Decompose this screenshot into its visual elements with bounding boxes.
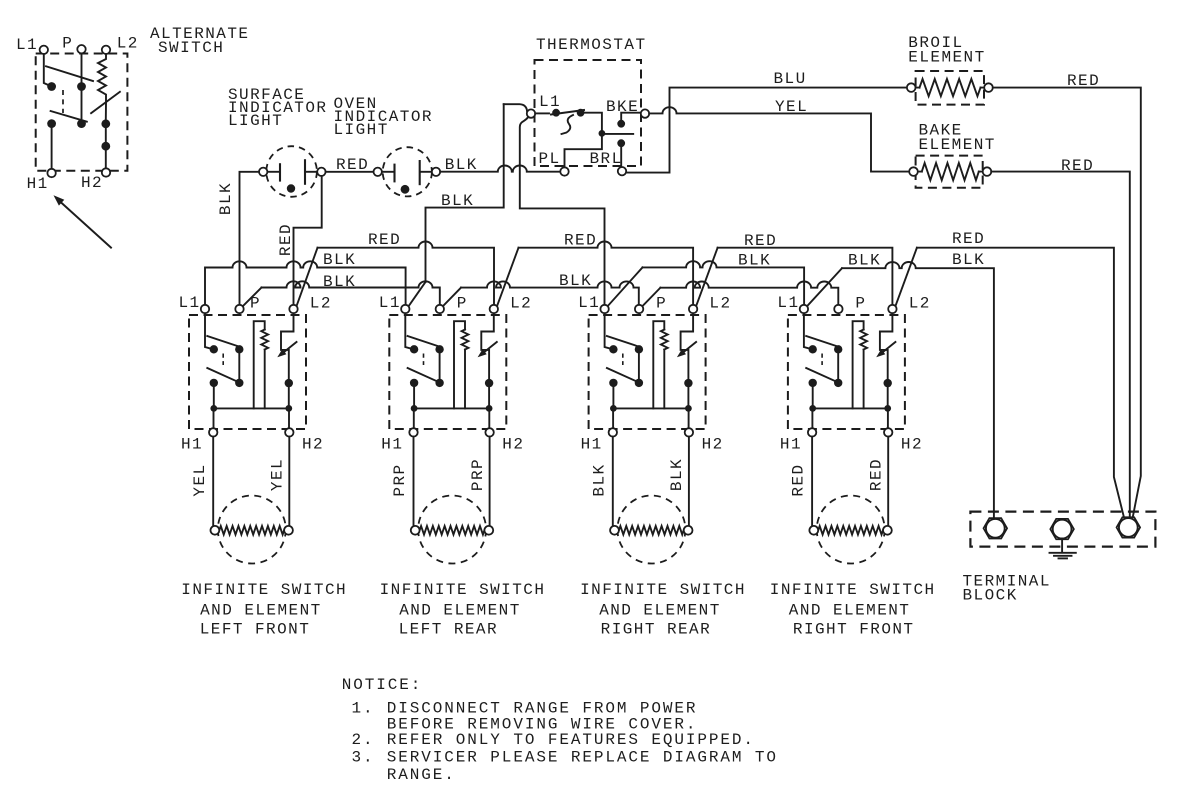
- svg-text:RED: RED: [1067, 72, 1100, 90]
- infinite switch 3 terminal L2: [689, 305, 697, 313]
- svg-text:INFINITE SWITCH: INFINITE SWITCH: [770, 581, 936, 599]
- infinite switch 3 terminal H1: [612, 408, 614, 428]
- infinite switch 4 lower contact: [806, 368, 836, 381]
- infinite switch 2 terminal P: [436, 305, 444, 313]
- svg-text:H2: H2: [81, 174, 103, 192]
- svg-text:RED: RED: [1061, 157, 1094, 175]
- svg-text:RED: RED: [744, 232, 777, 250]
- element 2 circle: [418, 496, 486, 564]
- broil element box: [916, 71, 984, 105]
- alt switch terminal H1: [47, 169, 55, 177]
- infinite switch 2 L1 contact feed: [405, 313, 414, 349]
- infinite switch 4 box: [788, 315, 905, 429]
- wire BLU thermostat BRL to broil element: [626, 88, 907, 173]
- infinite switch 4 output bar: [813, 383, 888, 409]
- svg-text:BLK: BLK: [445, 156, 478, 174]
- svg-text:RED: RED: [952, 230, 985, 248]
- svg-text:SERVICER PLEASE REPLACE DIAGRA: SERVICER PLEASE REPLACE DIAGRAM TO: [387, 749, 778, 767]
- thermostat box: [535, 60, 642, 166]
- svg-text:BLK: BLK: [323, 251, 356, 269]
- alt switch terminal P: [77, 45, 85, 53]
- element 2 terminals: [411, 526, 420, 535]
- infinite switch 4 upper contact: [809, 345, 817, 353]
- svg-text:INFINITE SWITCH: INFINITE SWITCH: [380, 581, 546, 599]
- thermostat terminal BKE: [641, 109, 649, 117]
- alt switch terminal L1: [40, 46, 48, 54]
- bake element terminals: [909, 167, 918, 176]
- infinite switch 4 terminal L1: [800, 305, 808, 313]
- infinite switch 1 terminal P: [235, 305, 243, 313]
- svg-text:THERMOSTAT: THERMOSTAT: [536, 36, 647, 54]
- infinite switch 1 internal heater: [254, 321, 265, 408]
- alt switch contact dots lower: [47, 119, 56, 128]
- svg-text:P: P: [855, 295, 866, 313]
- svg-text:RIGHT REAR: RIGHT REAR: [601, 620, 712, 638]
- alt switch contact arm lower: [51, 111, 87, 122]
- svg-text:P: P: [250, 295, 261, 313]
- svg-text:ELEMENT: ELEMENT: [919, 136, 996, 154]
- thermostat contact arm: [535, 112, 549, 114]
- element 3 circle: [617, 496, 685, 564]
- wire BLK pilot bus sw2 P to sw3 P: [443, 288, 461, 307]
- infinite switch 4 H1 wire RED: [811, 437, 813, 527]
- infinite switch 3 L2 contact: [681, 313, 694, 383]
- wire BLK oven light to thermostat PL: [440, 166, 560, 172]
- svg-text:P: P: [62, 35, 73, 53]
- alt switch L2 column dots: [101, 119, 110, 128]
- svg-text:H2: H2: [702, 436, 724, 454]
- svg-text:RED: RED: [336, 156, 369, 174]
- infinite switch 2 L2 contact: [481, 313, 494, 383]
- svg-text:BLK: BLK: [559, 272, 592, 290]
- svg-text:BLK: BLK: [441, 192, 474, 210]
- thermostat spring hook: [562, 115, 574, 134]
- svg-text:L1: L1: [179, 294, 201, 312]
- infinite switch 3 terminal L1: [600, 305, 608, 313]
- svg-text:H2: H2: [502, 436, 524, 454]
- alt switch terminal L2: [102, 46, 110, 54]
- svg-text:AND ELEMENT: AND ELEMENT: [599, 602, 721, 620]
- element 1 terminals: [211, 526, 220, 535]
- svg-text:RED: RED: [277, 223, 295, 256]
- svg-text:H1: H1: [581, 436, 603, 454]
- svg-text:H1: H1: [27, 175, 49, 193]
- svg-text:LIGHT: LIGHT: [228, 112, 283, 130]
- thermostat terminal BRL: [618, 167, 626, 175]
- svg-text:YEL: YEL: [775, 98, 808, 116]
- svg-text:L2: L2: [709, 295, 731, 313]
- oven light terminal left: [374, 168, 382, 176]
- infinite switch 1 contact link: [222, 354, 224, 366]
- svg-text:BLK: BLK: [217, 182, 235, 215]
- infinite switch 1 H2 wire YEL: [288, 437, 290, 527]
- infinite switch 1 H1 wire YEL: [212, 437, 214, 527]
- wire RED broil element to terminal block: [993, 88, 1141, 520]
- svg-text:AND ELEMENT: AND ELEMENT: [399, 602, 521, 620]
- element 4 circle: [817, 496, 885, 564]
- infinite switch 3 contact link: [622, 354, 624, 366]
- svg-text:INFINITE SWITCH: INFINITE SWITCH: [580, 581, 746, 599]
- infinite switch 3 box: [589, 315, 706, 429]
- infinite switch 3 L1 contact feed: [605, 313, 614, 349]
- infinite switch 3 lower contact: [607, 368, 637, 381]
- svg-text:RED: RED: [790, 463, 808, 496]
- svg-text:AND ELEMENT: AND ELEMENT: [789, 602, 911, 620]
- element 4 terminals: [809, 526, 818, 535]
- svg-text:SWITCH: SWITCH: [158, 39, 224, 57]
- alt switch contact arm upper: [46, 66, 93, 81]
- wire BLK bus sw3 L1 to sw4 L1: [608, 267, 643, 306]
- surface light dot: [287, 184, 295, 192]
- infinite switch 3 H2 wire BLK: [688, 437, 690, 527]
- bake element resistor: [922, 163, 979, 180]
- infinite switch 4 terminal L2: [888, 305, 896, 313]
- svg-text:BKE: BKE: [606, 98, 639, 116]
- infinite switch 2 terminal H1: [413, 408, 415, 428]
- surface light electrodes: [279, 163, 281, 181]
- wire RED bus sw2 to sw3: [497, 248, 519, 307]
- alt switch contact dots upper: [47, 82, 56, 91]
- surface indicator light bulb: [266, 146, 317, 197]
- broil element resistor: [920, 79, 981, 96]
- svg-text:H1: H1: [381, 436, 403, 454]
- infinite switch 1 upper contact: [210, 345, 218, 353]
- svg-text:YEL: YEL: [191, 463, 209, 496]
- infinite switch 3 output bar: [613, 383, 688, 409]
- svg-text:L1: L1: [539, 93, 561, 111]
- svg-text:P: P: [656, 295, 667, 313]
- infinite switch 3 internal heater: [653, 321, 664, 408]
- svg-text:NOTICE:: NOTICE:: [342, 676, 423, 694]
- svg-text:BRL: BRL: [590, 150, 623, 168]
- element 3 terminals: [610, 526, 619, 535]
- infinite switch 4 H2 wire RED: [887, 437, 889, 527]
- terminal block lug 1 (BLK): [984, 518, 1008, 538]
- svg-text:1.: 1.: [352, 700, 375, 718]
- wire BLK sw2 L1 arm to oven light feed: [409, 282, 426, 306]
- thermostat L1 feed wires: [504, 104, 527, 111]
- ground symbol: [1061, 539, 1063, 553]
- svg-text:3.: 3.: [352, 749, 375, 767]
- wire RED surface light to oven light: [326, 171, 374, 173]
- svg-text:BLK: BLK: [738, 252, 771, 270]
- svg-text:RED: RED: [368, 231, 401, 249]
- oven light dot: [401, 185, 410, 194]
- infinite switch 2 terminal L2: [490, 305, 498, 313]
- infinite switch 1 terminal L2: [289, 305, 297, 313]
- svg-text:L1: L1: [379, 294, 401, 312]
- infinite switch 4 terminal H1: [811, 408, 813, 428]
- svg-text:BLK: BLK: [668, 458, 686, 491]
- infinite switch 1 box: [189, 315, 306, 429]
- svg-text:2.: 2.: [352, 731, 375, 749]
- svg-text:INFINITE SWITCH: INFINITE SWITCH: [181, 581, 347, 599]
- thermostat BKE contact: [617, 120, 625, 128]
- infinite switch 3 upper contact: [609, 345, 617, 353]
- infinite switch 1 terminal H1: [213, 408, 215, 428]
- svg-text:H2: H2: [302, 436, 324, 454]
- alt switch L2 coil: [98, 54, 106, 119]
- svg-text:LIGHT: LIGHT: [334, 121, 389, 139]
- svg-text:PL: PL: [539, 150, 561, 168]
- infinite switch 2 contact link: [423, 354, 425, 366]
- svg-text:L2: L2: [117, 35, 139, 53]
- wire BLK sw4 L1 to terminal block: [807, 268, 842, 306]
- element 4 resistor: [818, 526, 883, 535]
- broil element terminals: [907, 83, 916, 92]
- wire YEL thermostat BKE to bake element: [649, 107, 909, 171]
- surface light terminal right: [317, 168, 325, 176]
- svg-text:BLK: BLK: [323, 273, 356, 291]
- svg-text:RED: RED: [564, 232, 597, 250]
- wire BLK pilot bus sw1 P to sw2 P: [243, 288, 262, 307]
- infinite switch 2 internal heater: [454, 321, 465, 408]
- wire RED bus L2 supply: [297, 248, 318, 307]
- svg-text:H1: H1: [181, 436, 203, 454]
- element 1 resistor: [219, 526, 284, 535]
- svg-text:L2: L2: [909, 295, 931, 313]
- svg-text:L2: L2: [510, 295, 532, 313]
- infinite switch 2 terminal L1: [401, 305, 409, 313]
- svg-text:REFER ONLY TO FEATURES EQUIPPE: REFER ONLY TO FEATURES EQUIPPED.: [387, 731, 755, 749]
- infinite switch 2 terminal H2: [488, 408, 490, 428]
- wire BLK bus sw1 L1 to sw2 L1: [205, 261, 406, 304]
- surface light terminal left: [259, 168, 267, 176]
- wire RED indicator lights to sw1 L2: [294, 176, 322, 305]
- terminal block lug 3 (RED): [1117, 517, 1141, 537]
- thermostat terminal PL: [560, 167, 568, 175]
- infinite switch 3 terminal P: [635, 305, 643, 313]
- infinite switch 1 L2 contact: [281, 313, 294, 383]
- terminal block lug 2 (neutral): [1050, 519, 1074, 539]
- infinite switch 2 H1 wire PRP: [413, 437, 415, 527]
- svg-text:LEFT FRONT: LEFT FRONT: [200, 620, 311, 638]
- infinite switch 4 contact link: [821, 354, 823, 366]
- infinite switch 3 terminal H2: [688, 408, 690, 428]
- svg-text:ELEMENT: ELEMENT: [908, 49, 985, 67]
- element 3 resistor: [619, 526, 684, 535]
- alt switch P wire: [81, 54, 83, 120]
- svg-text:BLU: BLU: [774, 70, 807, 88]
- infinite switch 2 H2 wire PRP: [489, 437, 491, 527]
- svg-text:BLK: BLK: [590, 463, 608, 496]
- svg-text:L2: L2: [310, 295, 332, 313]
- infinite switch 1 output bar: [214, 383, 289, 409]
- infinite switch 1 lower contact: [207, 368, 237, 381]
- svg-text:H2: H2: [901, 436, 923, 454]
- terminal block box: [970, 512, 1155, 547]
- oven indicator light bulb: [383, 147, 432, 196]
- svg-text:L1: L1: [16, 36, 38, 54]
- infinite switch 4 terminal P: [834, 305, 842, 313]
- thermostat internal node: [565, 113, 602, 168]
- infinite switch 1 terminal H2: [288, 408, 290, 428]
- bake element box: [916, 156, 983, 188]
- svg-text:YEL: YEL: [269, 458, 287, 491]
- svg-text:RANGE.: RANGE.: [387, 766, 456, 784]
- svg-text:PRP: PRP: [469, 458, 487, 491]
- infinite switch 4 L2 contact: [880, 313, 893, 383]
- infinite switch 2 output bar: [414, 383, 489, 409]
- thermostat BRL contact: [617, 139, 625, 147]
- svg-text:RED: RED: [868, 458, 886, 491]
- svg-text:BLK: BLK: [952, 251, 985, 269]
- wire surface light to sw1 P (BLK): [240, 172, 260, 305]
- alt switch link: [62, 90, 64, 113]
- svg-text:PRP: PRP: [391, 463, 409, 496]
- svg-text:L1: L1: [578, 294, 600, 312]
- infinite switch 4 L1 contact feed: [804, 313, 813, 349]
- infinite switch 2 box: [389, 315, 506, 429]
- alt switch terminal H2: [102, 168, 110, 176]
- alt switch coil slash: [91, 92, 120, 113]
- alt switch H1 wire: [51, 124, 53, 169]
- oven light terminal right: [432, 168, 440, 176]
- svg-text:L1: L1: [777, 294, 799, 312]
- wire RED bake element to terminal block: [991, 172, 1130, 517]
- svg-text:P: P: [457, 295, 468, 313]
- alt switch pointer arrow: [60, 202, 111, 248]
- infinite switch 1 terminal L1: [201, 305, 209, 313]
- infinite switch 4 terminal H2: [887, 408, 889, 428]
- svg-text:LEFT REAR: LEFT REAR: [399, 620, 498, 638]
- svg-text:RIGHT FRONT: RIGHT FRONT: [793, 620, 915, 638]
- infinite switch 2 lower contact: [408, 368, 438, 381]
- alt switch L1 wire: [44, 54, 52, 86]
- svg-text:BLK: BLK: [848, 252, 881, 270]
- element 2 resistor: [420, 526, 485, 535]
- alternate switch box: [36, 54, 128, 171]
- wire BLK pilot bus sw3 P to sw4 P: [642, 288, 660, 307]
- element 1 circle: [218, 496, 286, 564]
- svg-text:AND ELEMENT: AND ELEMENT: [200, 602, 322, 620]
- infinite switch 3 H1 wire BLK: [612, 437, 614, 527]
- svg-text:BLOCK: BLOCK: [963, 586, 1018, 604]
- svg-text:H1: H1: [780, 436, 802, 454]
- infinite switch 1 L1 contact feed: [205, 313, 214, 349]
- wire RED bus sw3 to sw4: [696, 248, 718, 307]
- alt switch H2 wire: [105, 124, 107, 168]
- infinite switch 2 upper contact: [410, 345, 418, 353]
- thermostat contact bar: [602, 133, 633, 135]
- wire RED bus sw4 to terminal block: [895, 248, 917, 307]
- infinite switch 4 internal heater: [853, 321, 864, 408]
- oven light electrodes: [393, 164, 395, 183]
